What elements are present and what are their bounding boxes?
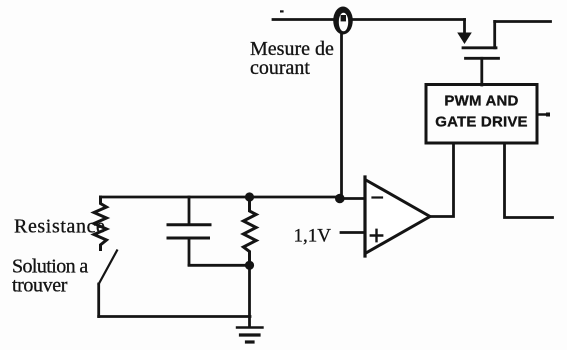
current sensor (transformer oval) [333,7,353,35]
plus sign [371,230,382,241]
node: R2 top junction dot [245,192,254,201]
wire: cap bottom to node B [189,264,250,267]
transistor Q1 (MOSFET, top right) [457,20,550,86]
source wire to right [495,20,551,23]
ground [237,328,263,343]
svg-text:courant: courant [250,57,310,79]
svg-text:trouver: trouver [12,275,68,297]
wire: sense line from sensor down to node A [340,35,343,199]
wire: switch lower lead [97,284,100,317]
gate lead down to box [480,58,483,85]
resistor R1 (left, "Resistance") [94,197,107,250]
node A junction dot [335,194,345,204]
svg-text:Resistance: Resistance [14,216,106,238]
wire: inverting input from node A [340,197,366,200]
wire: op-amp output up to box (left bottom lead) [430,144,454,217]
resistor R2 (right) [243,197,256,266]
channel bar [463,46,496,49]
capacitor C1 [168,197,210,265]
gate bar [466,57,499,60]
artifact dash top-left [280,10,284,12]
minus sign [373,196,383,198]
svg-text:PWM AND: PWM AND [444,93,518,110]
wire: node B down to ground [248,265,251,327]
wire: non-inverting input (1,1V) [341,231,365,234]
svg-text:GATE DRIVE: GATE DRIVE [435,114,528,131]
svg-text:1,1V: 1,1V [294,226,332,247]
op-amp left edge emphasis [363,177,366,256]
PWM AND GATE DRIVE box U2 [426,85,537,144]
wire: box right bottom lead down and to right edge [505,144,553,218]
op-amp U1 (comparator) [365,177,430,256]
drain lead with arrow [463,20,466,34]
node B: R2 bottom junction dot [245,261,254,270]
source vertical [493,22,496,48]
stub on right side of box [538,113,549,116]
switch SW1 (open) [99,251,117,285]
wire: bottom rail [99,315,250,318]
wire: top rail left of MOSFET [273,18,465,21]
wire: left rail from R1 to node A [101,196,342,199]
